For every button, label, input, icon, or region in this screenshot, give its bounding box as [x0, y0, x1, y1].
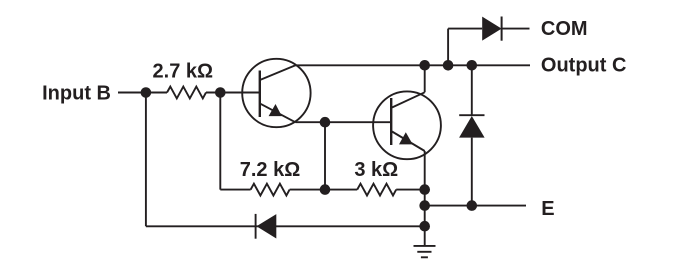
wire: R3 to emitter node: [396, 189, 425, 191]
diode D2 (output clamp, pointing up): [459, 115, 485, 137]
resistor R1 2.7 kOhm: [167, 87, 206, 99]
node: E rail junction: [419, 200, 430, 211]
wire: top rail (Output C): [296, 64, 531, 66]
wire: Input B lead to node: [118, 92, 167, 94]
svg-text:2.7 kΩ: 2.7 kΩ: [153, 61, 214, 83]
ground: [414, 226, 436, 257]
svg-text:7.2 kΩ: 7.2 kΩ: [240, 159, 301, 181]
svg-text:Input B: Input B: [42, 83, 111, 105]
wire: Q1 emitter to Q2 base: [296, 121, 392, 123]
wire: Q2 emitter down through nodes to bottom rail: [424, 151, 426, 226]
wire: vertical from output rail down to D2: [471, 65, 473, 115]
svg-text:COM: COM: [541, 18, 588, 40]
diode D1 (to COM, pointing right): [482, 17, 501, 41]
svg-text:Output C: Output C: [541, 55, 627, 77]
transistor Q2: [373, 91, 441, 159]
diode D3 (input clamp, pointing left): [256, 214, 277, 239]
wire: R1 to Q1 base: [206, 92, 260, 94]
wire: riser to COM diode: [447, 29, 449, 66]
svg-text:3 kΩ: 3 kΩ: [354, 159, 398, 181]
node: bottom rail junction: [419, 221, 430, 232]
wire: bottom rail: [146, 225, 425, 227]
node: Q1 emitter junction: [320, 117, 331, 128]
wire: COM branch right segment: [502, 28, 530, 30]
node: rail junction left: [419, 60, 430, 71]
wire: R2 to middle node: [290, 189, 358, 191]
node: rail junction right: [467, 60, 478, 71]
node: rail junction middle: [443, 60, 454, 71]
node: R1 right junction: [215, 87, 226, 98]
resistor R2 7.2 kOhm: [251, 184, 290, 196]
node: emitter-resistor junction: [419, 184, 430, 195]
wire: COM branch left segment: [448, 28, 482, 30]
wire: vertical from middle resistor node up to Q1 emitter line: [324, 122, 326, 189]
wire: left vertical from input node down: [145, 93, 147, 227]
svg-text:E: E: [541, 198, 554, 220]
wire: E rail: [425, 205, 526, 207]
wire: corner to R2: [220, 189, 250, 191]
node: D2 on E rail: [467, 200, 478, 211]
wire: vertical from R1 node down to 7.2k row: [219, 93, 221, 190]
wire: D2 down to E rail: [471, 138, 473, 206]
transistor Q1: [242, 59, 310, 127]
node: resistor row middle junction: [320, 184, 331, 195]
resistor R3 3 kOhm: [357, 184, 396, 196]
wire: vertical from rail down to Q2 collector: [424, 65, 426, 92]
node: input junction: [141, 87, 152, 98]
